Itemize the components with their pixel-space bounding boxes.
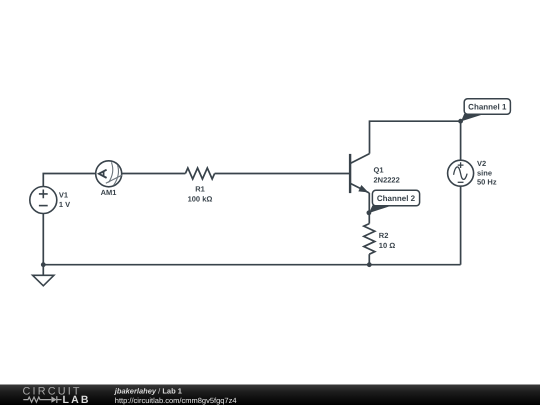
node: Channel 2 junction	[367, 210, 372, 215]
wire: R1 to Q1 base	[215, 173, 350, 175]
svg-text:Q1: Q1	[374, 166, 384, 175]
wire: AM1 to R1	[122, 173, 186, 175]
node: ground junction	[41, 262, 46, 267]
svg-text:100 kΩ: 100 kΩ	[188, 195, 213, 204]
wire: Q1 emitter lead to R2	[368, 193, 370, 224]
ammeter AM1	[96, 161, 123, 197]
resistor R2	[364, 224, 395, 255]
wire: V1 top to AM1	[43, 174, 95, 187]
svg-text:Channel 1: Channel 1	[468, 103, 507, 112]
ground	[33, 275, 54, 286]
probe label Channel 1	[461, 99, 510, 122]
svg-text:V2: V2	[477, 159, 486, 168]
svg-text:Channel 2: Channel 2	[377, 194, 416, 203]
CircuitLab logo resistor-diode squiggle	[23, 396, 61, 403]
svg-text:LAB: LAB	[63, 394, 91, 405]
svg-text:R2: R2	[379, 231, 389, 240]
wire: bottom rail	[43, 264, 460, 266]
node: Channel 1 junction	[458, 119, 463, 124]
wire: V2 bottom to bottom rail	[460, 186, 462, 265]
wire: R2 bottom to rail	[368, 254, 370, 265]
svg-text:1 V: 1 V	[59, 200, 70, 209]
svg-text:50 Hz: 50 Hz	[477, 177, 497, 186]
svg-text:sine: sine	[477, 168, 492, 177]
resistor R1	[185, 168, 214, 204]
svg-text:2N2222: 2N2222	[374, 175, 400, 184]
svg-text:V1: V1	[59, 191, 68, 200]
wire: node to V2 top	[460, 121, 462, 160]
transistor Q1	[350, 154, 400, 194]
svg-text:AM1: AM1	[101, 188, 117, 197]
node: R2 bottom junction	[367, 262, 372, 267]
voltage source V1	[30, 187, 70, 214]
wire: V1 bottom to rail and ground stub	[42, 214, 44, 276]
svg-text:jbakerlahey / Lab 1: jbakerlahey / Lab 1	[114, 386, 182, 395]
svg-text:R1: R1	[195, 185, 205, 194]
probe label Channel 2	[369, 190, 420, 213]
voltage source V2	[448, 159, 497, 186]
svg-text:http://circuitlab.com/cmm8gv5f: http://circuitlab.com/cmm8gv5fgq7z4	[115, 396, 237, 405]
svg-text:10 Ω: 10 Ω	[379, 241, 395, 250]
wire: Q1 collector lead and top rail to node	[370, 121, 461, 153]
